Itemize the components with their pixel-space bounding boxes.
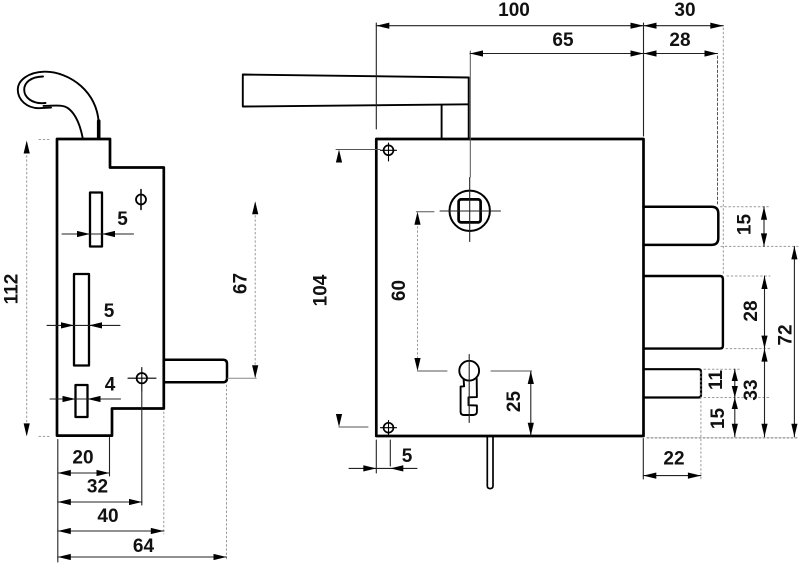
svg-text:100: 100	[498, 0, 530, 21]
svg-text:104: 104	[311, 274, 332, 306]
svg-text:33: 33	[741, 379, 762, 400]
dimension 28 (top)	[644, 53, 718, 55]
left view: slot S2	[74, 274, 89, 366]
right view: keyhole	[459, 361, 479, 415]
extension line: body bottom right (dark dashed)	[647, 437, 798, 439]
dimension 11 (aux bolt height)	[734, 369, 736, 397]
dimension 32	[58, 501, 142, 503]
dimension 65	[470, 53, 644, 55]
dimension 28 (deadbolt height)	[764, 276, 766, 349]
right view: auxiliary bolt	[644, 369, 702, 397]
dimension 67 (hole spacing)	[254, 203, 256, 377]
right view: lever handle (front view)	[243, 75, 469, 139]
svg-text:5: 5	[117, 209, 128, 230]
extension line: spindle center up (65 start)	[469, 51, 471, 177]
dimension 15 (aux bolt to bottom)	[734, 398, 736, 437]
svg-text:11: 11	[706, 370, 727, 391]
dimension 25	[530, 371, 532, 436]
extension line: deadbolt end up (30 end)	[722, 28, 724, 274]
extension line: plate left edge down	[57, 440, 59, 563]
dimension 64	[58, 556, 227, 558]
svg-text:25: 25	[504, 391, 525, 413]
dimension 60	[417, 214, 419, 369]
svg-text:72: 72	[776, 324, 797, 345]
extension line: hole H2 center down (32 end)	[141, 391, 143, 505]
right view: fixing hole bottom-left	[381, 421, 397, 436]
svg-text:40: 40	[97, 506, 118, 527]
right view: fixing hole top-left	[381, 143, 397, 161]
svg-text:22: 22	[663, 449, 684, 470]
svg-text:65: 65	[552, 30, 574, 51]
dimension 100	[376, 25, 643, 27]
left view: faceplate outline	[57, 139, 164, 436]
right view: latch bolt	[644, 207, 719, 245]
right view: spindle hub (circle with square)	[440, 178, 501, 242]
left view: slot S3	[76, 385, 88, 417]
dimension 15 (latch height)	[763, 207, 765, 247]
dimension 30	[644, 25, 724, 27]
dimension 20	[58, 472, 110, 474]
svg-text:4: 4	[105, 375, 116, 396]
svg-text:5: 5	[104, 301, 115, 322]
dimension 72	[793, 246, 795, 436]
svg-text:28: 28	[669, 30, 690, 51]
left view: bolt pin (side view)	[164, 360, 227, 383]
dimension 40	[58, 530, 164, 532]
extension line: body right edge up (100/30/65/28)	[643, 23, 645, 136]
dimension 22	[643, 439, 701, 480]
left view: hole H1 (phi symbol)	[136, 190, 146, 210]
svg-text:64: 64	[133, 536, 155, 557]
svg-text:30: 30	[674, 0, 695, 21]
extension lines: right side (grey dashed)	[704, 207, 798, 398]
right view: guide pin below body	[487, 437, 493, 489]
left view: handle hook (side view of lever grip)	[18, 72, 99, 138]
extension line: plate right edge down (40 end)	[163, 412, 165, 534]
right view: lock body	[376, 139, 643, 436]
extension line: body left edge up (100 start)	[375, 23, 377, 129]
dimension 104	[336, 150, 380, 428]
extension line: pin end down (64 end)	[226, 385, 228, 560]
svg-text:32: 32	[87, 477, 108, 498]
svg-text:15: 15	[735, 214, 756, 236]
dimension 5 (hole offset, below body)	[349, 440, 417, 473]
extension line: 20 end	[109, 438, 111, 477]
svg-text:5: 5	[402, 446, 413, 467]
dimension 5 (slot S1 width)	[62, 233, 134, 235]
dimension 4 (slot S3 width)	[50, 398, 121, 400]
svg-text:112: 112	[2, 274, 23, 305]
left view: hole H2 with centerlines	[128, 368, 156, 392]
dimension 33	[764, 349, 766, 437]
extension line: latch end up (28 end)	[717, 56, 719, 204]
svg-text:67: 67	[231, 273, 252, 294]
dimension 112 (overall height)	[27, 140, 51, 437]
dimension 5 (slot S2 width)	[47, 324, 120, 326]
right view: deadbolt	[644, 276, 723, 349]
svg-text:20: 20	[72, 448, 93, 469]
svg-text:15: 15	[708, 408, 729, 430]
svg-text:28: 28	[741, 300, 762, 321]
svg-text:60: 60	[389, 280, 410, 301]
left view: slot S1	[90, 193, 102, 247]
